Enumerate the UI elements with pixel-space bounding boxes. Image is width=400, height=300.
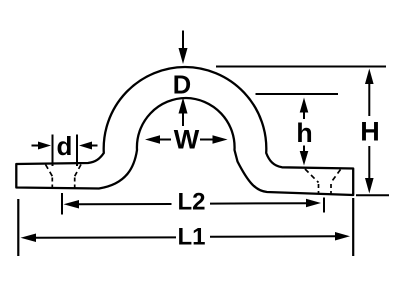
saddle clamp body outline [16,67,353,195]
svg-text:L1: L1 [177,224,205,251]
svg-text:D: D [173,72,191,100]
L2 left extension tick [61,193,63,215]
svg-text:H: H [360,117,380,147]
dimension L1 right arrow (pointing right) [210,232,350,241]
h extension line (inner arch top level) [256,93,339,95]
H extension line (outer arch top level) [216,66,386,68]
dimension D lower arrow (pointing up to inner arch top) [179,98,188,127]
svg-text:L2: L2 [177,189,205,216]
svg-text:d: d [57,131,73,161]
svg-text:W: W [174,125,200,155]
dimension L1 left arrow (pointing left) [21,234,177,243]
dimension h upper arrow (pointing up) [300,98,309,120]
dimension H lower arrow (pointing down) [365,146,374,194]
dimension D upper arrow (pointing down to outer arch top) [179,31,188,65]
dimension L2 left arrow (pointing left) [64,200,172,209]
dimension d right arrow (pointing left) [79,142,98,150]
dimension W arrows [145,135,228,144]
dimension H upper arrow (pointing up) [365,69,374,117]
dimension h lower arrow (pointing down to foot top) [300,146,309,166]
countersunk hole left (dashed hidden lines) [46,165,82,188]
dimension d left arrow (pointing right) [32,142,52,150]
dimension d extension ticks [53,135,78,167]
L1 right extension line [352,198,354,256]
dimension L2 right arrow (pointing right) [210,199,321,208]
L1 left extension line [17,199,19,256]
L2 right extension tick [323,198,325,213]
svg-text:h: h [296,118,313,148]
H bottom extension line (base bottom level) [356,194,389,196]
countersunk hole right (dashed hidden lines) [305,169,341,194]
